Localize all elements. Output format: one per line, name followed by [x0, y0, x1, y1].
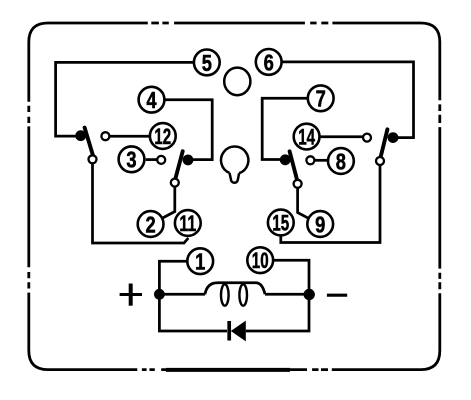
- wire pin1 to positive node: [159, 261, 187, 291]
- svg-text:9: 9: [315, 211, 325, 237]
- NO contact switch D: [306, 156, 314, 164]
- wire switch A pivot to pin 11: [93, 164, 189, 243]
- svg-text:3: 3: [126, 147, 136, 173]
- wire switch D pivot to pin 9: [298, 188, 309, 218]
- NC contact dot switch B: [183, 155, 194, 166]
- wire pin14 to NO contact C: [320, 135, 363, 138]
- wire NO contact D to pin 8: [315, 159, 328, 162]
- positive node junction: [154, 289, 165, 300]
- pin 1: [187, 248, 213, 274]
- plus sign: [120, 284, 142, 306]
- relay case outline (phantom line border): [29, 23, 440, 370]
- NO contact switch C: [363, 134, 371, 142]
- armature lever switch A: [85, 128, 94, 157]
- pin 6: [256, 49, 282, 75]
- svg-text:15: 15: [272, 210, 289, 235]
- armature lever switch C: [380, 129, 387, 158]
- svg-text:10: 10: [252, 248, 269, 273]
- wire pin6 to NC contact of switch C: [281, 62, 414, 138]
- wire positive node to diode anode side: [159, 294, 227, 331]
- pin 15: [268, 210, 294, 236]
- svg-text:4: 4: [146, 87, 156, 113]
- pin 11: [175, 210, 201, 236]
- NC contact dot switch C: [388, 132, 399, 143]
- pin 8: [328, 148, 354, 174]
- svg-text:2: 2: [146, 211, 156, 237]
- coil K1: [205, 283, 265, 306]
- wire switch C pivot to pin 15: [281, 165, 380, 242]
- diode D1: [229, 321, 246, 342]
- NC contact dot switch A: [75, 130, 86, 141]
- armature lever switch B: [175, 151, 183, 179]
- pin 14: [294, 124, 320, 150]
- pivot contact switch D: [294, 180, 302, 188]
- svg-text:1: 1: [195, 249, 205, 275]
- NO contact switch A: [101, 132, 109, 140]
- index hole top center: [224, 68, 250, 96]
- svg-text:5: 5: [202, 50, 212, 76]
- pin 12: [150, 123, 176, 149]
- negative node junction: [304, 289, 315, 300]
- pin 9: [307, 211, 333, 237]
- svg-text:11: 11: [179, 211, 196, 236]
- svg-text:12: 12: [154, 124, 171, 149]
- pin 7: [308, 85, 334, 111]
- pivot contact switch A: [89, 155, 97, 163]
- pin 3: [119, 146, 145, 172]
- keyhole center: [221, 147, 248, 183]
- wire coil to negative node: [265, 293, 309, 296]
- wire pin3 to NO contact B: [146, 158, 157, 161]
- svg-text:7: 7: [316, 86, 326, 112]
- pivot contact switch C: [376, 157, 384, 165]
- pin 4: [139, 87, 165, 113]
- NC contact dot switch D: [280, 154, 291, 165]
- pin 5: [194, 50, 220, 76]
- wire pin10 to negative node: [273, 260, 309, 291]
- pin 2: [138, 211, 164, 237]
- wire pin7 to NC contact of switch D: [262, 98, 307, 159]
- NO contact switch B: [157, 156, 165, 164]
- wire diode cathode side to negative node: [246, 294, 309, 331]
- svg-text:8: 8: [336, 148, 346, 174]
- armature lever switch D: [290, 151, 298, 180]
- pivot contact switch B: [171, 179, 179, 187]
- wire positive node to coil: [159, 293, 205, 296]
- minus sign: [327, 294, 347, 297]
- wire switch B pivot to pin 2: [162, 187, 175, 219]
- wire pin5 to NC contact of switch A: [56, 62, 195, 136]
- wire NO contact A to pin 12: [110, 135, 150, 138]
- wire pin4 to NC contact of switch B: [165, 100, 212, 160]
- svg-text:6: 6: [264, 49, 274, 75]
- svg-text:14: 14: [298, 125, 315, 150]
- pin 10: [247, 247, 273, 273]
